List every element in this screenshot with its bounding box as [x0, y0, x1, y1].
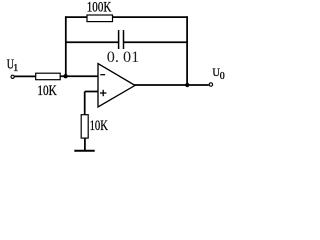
svg-text:10K: 10K: [90, 118, 109, 134]
node U1 input terminal: [11, 75, 14, 78]
wire feedback top rail: [65, 16, 188, 18]
resistor 10K (input): [36, 73, 61, 80]
svg-text:10K: 10K: [37, 83, 57, 99]
wire U1 terminal to R input: [15, 75, 37, 77]
wire right feedback vertical: [186, 16, 188, 85]
wire left feedback vertical: [65, 16, 67, 76]
svg-text:0. 01: 0. 01: [107, 49, 140, 66]
resistor 100K (feedback): [87, 15, 113, 22]
wire capacitor branch right: [124, 41, 187, 43]
wire resistor to ground: [84, 138, 86, 150]
wire non-inverting input horizontal: [85, 91, 98, 93]
junction inverting input node: [63, 74, 67, 78]
resistor 10K (ground leg, vertical): [81, 115, 88, 138]
op-amp minus pin marking: [100, 74, 105, 76]
op-amp plus pin marking: [100, 90, 106, 96]
wire R input to inverting input: [60, 75, 98, 77]
label U1: [7, 57, 19, 74]
junction output node: [185, 83, 189, 87]
wire op-amp output: [135, 84, 209, 86]
ground: [74, 150, 94, 152]
wire non-inverting input vertical down: [84, 92, 86, 116]
label U0: [212, 65, 224, 82]
svg-text:100K: 100K: [87, 0, 112, 16]
capacitor 0.01 (feedback): [119, 30, 124, 49]
op-amp U1 triangle: [98, 64, 135, 108]
node U0 output terminal: [209, 83, 212, 86]
svg-text:0: 0: [220, 71, 225, 82]
wire capacitor branch left: [66, 41, 118, 43]
svg-text:1: 1: [13, 62, 19, 74]
